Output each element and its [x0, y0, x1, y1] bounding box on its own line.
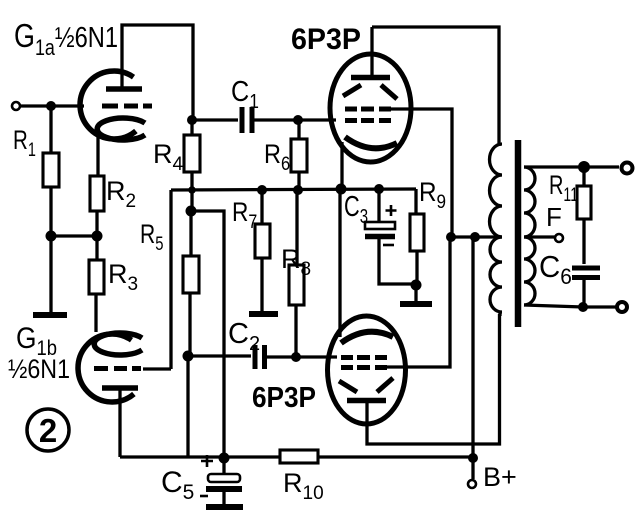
- resistor R10: [280, 450, 318, 463]
- svg-text:½6N1: ½6N1: [8, 354, 70, 384]
- input terminal: [12, 102, 20, 110]
- resistor R6: [291, 139, 307, 172]
- G1a grid dashes: [102, 104, 152, 109]
- wire R2 bottom lead: [95, 211, 98, 236]
- label C6: [539, 250, 572, 289]
- node C2 right junction: [291, 352, 301, 362]
- resistor R5: [183, 256, 199, 293]
- U2 cathode arc: [341, 332, 393, 343]
- triode G1a envelope: [80, 71, 136, 139]
- capacitor C1: [242, 107, 252, 133]
- transformer primary winding: [490, 144, 503, 312]
- G1b plate lead: [118, 390, 121, 457]
- wire input to grid: [20, 104, 84, 107]
- wire riser to R5 node: [186, 356, 189, 457]
- resistor R2: [90, 176, 104, 211]
- wire to C5 column: [191, 211, 224, 458]
- resistor R9: [410, 214, 424, 251]
- U1 cathode arc: [345, 137, 397, 148]
- svg-text:6P3P: 6P3P: [291, 22, 361, 56]
- resistor R3: [89, 260, 104, 294]
- wire cathode to tube2: [338, 189, 341, 337]
- wire R11 bottom lead: [582, 219, 585, 264]
- pentode U2 envelope: [328, 316, 406, 424]
- capacitor C6: [572, 268, 600, 278]
- terminal B+: [468, 480, 476, 488]
- wire junction bus: [51, 234, 97, 237]
- U1 plate bar: [351, 75, 390, 81]
- wire R9 bottom lead: [415, 251, 418, 285]
- wire C5 bottom stub: [222, 492, 225, 504]
- wire C3 top stub: [377, 189, 380, 222]
- label 1/2 6N1: [8, 354, 70, 384]
- node R11 top: [578, 161, 590, 173]
- label C3: [344, 191, 368, 227]
- U2 plate bar: [347, 398, 386, 404]
- node R4 bus crossing: [188, 186, 196, 194]
- wire R4 top lead: [190, 120, 193, 135]
- label 6P3P top: [291, 22, 361, 56]
- capacitor C2: [255, 345, 265, 369]
- U1 cathode lead: [340, 142, 343, 189]
- wire C2 right: [267, 355, 337, 358]
- node cathode bus junction: [336, 184, 347, 195]
- U1 screen wire: [391, 109, 452, 237]
- node R6/R8 junction: [293, 185, 303, 195]
- C3 minus sign: [383, 244, 394, 247]
- wire R7 bottom lead: [260, 258, 263, 311]
- U1 plate top wire: [372, 27, 499, 146]
- wire R8 bottom lead: [294, 305, 297, 357]
- G1a cathode arc: [97, 118, 145, 140]
- node C1 right junction: [293, 115, 303, 125]
- wire C6 bottom lead: [582, 278, 585, 307]
- wire ground stub: [414, 285, 417, 301]
- terminal output bottom: [617, 302, 627, 312]
- wire R6 top lead: [297, 120, 300, 139]
- wire R10 right lead: [318, 455, 472, 458]
- node C3 top junction: [374, 184, 384, 194]
- label 6P3P bottom: [252, 381, 316, 414]
- label G1a 1/2 6N1: [14, 19, 118, 61]
- wire R9 top lead: [414, 189, 417, 214]
- U1 plate lead: [370, 27, 373, 77]
- wire primary bottom lead: [498, 312, 501, 316]
- node B+ junction: [468, 453, 478, 463]
- node C5 junction: [219, 453, 230, 464]
- capacitor C3: [365, 222, 395, 229]
- wire C1 left: [192, 118, 238, 121]
- wire F tap: [524, 235, 555, 238]
- G1a cathode lead: [96, 131, 99, 176]
- ground C3 R9: [400, 301, 432, 307]
- U1 grid dashes: [345, 118, 391, 123]
- ground C5: [206, 504, 243, 510]
- wire R6 bottom lead: [297, 172, 300, 190]
- U2 grid dashes: [341, 355, 387, 360]
- transformer core: [515, 140, 522, 327]
- resistor R11: [577, 186, 591, 219]
- circled 2: [27, 409, 69, 451]
- G1b grid wire to riser: [143, 367, 171, 370]
- wire secondary bottom: [524, 305, 616, 307]
- svg-text:B+: B+: [483, 462, 517, 492]
- U1 screen dashes: [345, 107, 391, 112]
- G1b grid dashes: [94, 366, 141, 371]
- resistor R1: [43, 153, 59, 187]
- wire R8 top lead: [295, 190, 298, 265]
- capacitor C3 plus sign: [386, 205, 397, 216]
- capacitor C5: [208, 474, 240, 482]
- label R5: [140, 220, 163, 255]
- svg-text:6P3P: 6P3P: [252, 381, 316, 414]
- wire R3 bottom lead: [94, 294, 97, 332]
- C5 plus sign: [201, 455, 213, 467]
- node R4/R5 junction: [186, 206, 197, 217]
- U2 screen wire: [387, 237, 450, 367]
- svg-text:F: F: [546, 202, 562, 232]
- U2 screen dashes: [341, 365, 387, 370]
- wire bus A: [171, 189, 416, 190]
- node G1a plate junction: [187, 115, 197, 125]
- node secondary bottom: [578, 302, 588, 312]
- node R1 bottom junction: [46, 231, 57, 242]
- pentode U1 envelope: [330, 54, 411, 162]
- node center tap left: [446, 232, 456, 242]
- ground: [33, 312, 67, 318]
- node R5 bottom junction: [183, 351, 194, 362]
- G1b cathode arc: [94, 333, 142, 355]
- svg-text:2: 2: [39, 412, 57, 449]
- G1a plate bar: [106, 86, 142, 92]
- node R2 bottom junction: [92, 231, 103, 242]
- U2 plate lead: [367, 314, 500, 444]
- C5 minus sign: [200, 495, 208, 498]
- label R9: [419, 178, 446, 212]
- resistor R8: [289, 265, 304, 305]
- wire R1 top lead: [49, 106, 52, 153]
- node R7 top junction: [257, 185, 267, 195]
- ground R7: [249, 311, 278, 317]
- G1a plate lead: [122, 25, 193, 120]
- wire C1 right: [254, 118, 336, 121]
- label R6: [264, 140, 290, 175]
- triode G1b envelope: [78, 334, 134, 402]
- node input junction: [46, 101, 56, 111]
- wire center tap: [449, 235, 502, 238]
- label R1: [13, 125, 36, 160]
- G1b plate bar: [102, 385, 138, 391]
- node center tap B+: [470, 232, 480, 242]
- wire C2 left: [188, 354, 251, 357]
- terminal output top: [622, 163, 633, 174]
- node C3/R9 ground junction: [411, 280, 422, 291]
- wire C5 top stub: [222, 458, 225, 474]
- wire R3 top lead: [95, 236, 98, 260]
- label G1b: [16, 320, 57, 360]
- wire B+ riser: [471, 237, 474, 479]
- wire secondary top: [524, 165, 619, 168]
- wire R5 bottom lead: [188, 293, 191, 356]
- U2 beam plates: [339, 378, 393, 392]
- resistor R7: [255, 224, 270, 258]
- U1 beam plates: [343, 85, 397, 99]
- wire R1 bottom lead: [49, 187, 52, 236]
- terminal F: [555, 234, 563, 242]
- label R7: [232, 197, 257, 232]
- label R11: [549, 170, 578, 205]
- wire R5 top lead: [189, 211, 192, 256]
- wire R11 top lead: [582, 167, 585, 186]
- wire G1b grid riser: [169, 190, 172, 369]
- wire ground stub: [49, 236, 52, 312]
- wire C3 bottom lead: [379, 239, 414, 284]
- wire R7 top lead: [260, 190, 263, 224]
- wire G1b plate bottom run: [120, 455, 280, 458]
- wire R4 bottom lead: [190, 172, 193, 211]
- transformer secondary winding: [524, 167, 535, 305]
- resistor R4: [184, 135, 200, 172]
- label C1: [231, 74, 259, 112]
